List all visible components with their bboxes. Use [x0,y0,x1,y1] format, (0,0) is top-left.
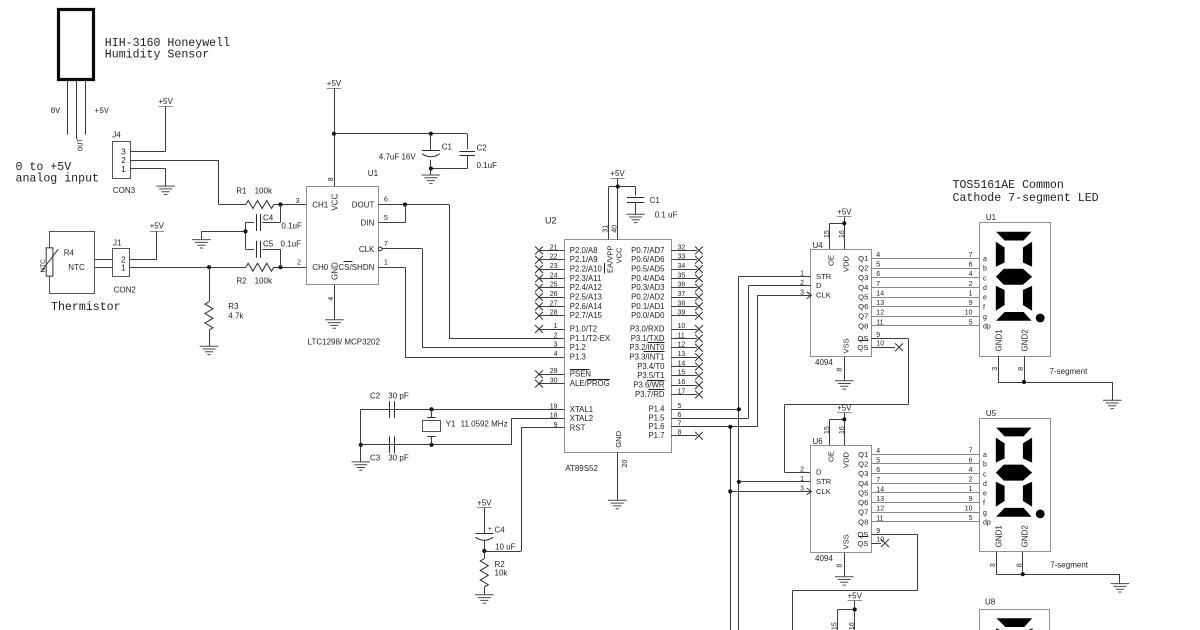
wire R4 to J1 pin2 [95,259,113,261]
svg-text:4: 4 [876,252,880,259]
capacitor C4 0.1uF [246,205,302,232]
svg-text:CLK: CLK [359,245,375,254]
text: TOS5161AE Common Cathode 7-segment LED [953,179,1099,205]
svg-text:Q6: Q6 [858,302,868,311]
ground at U2 GND [608,500,627,508]
svg-text:LTC1298/ MCP3202: LTC1298/ MCP3202 [308,338,381,347]
junction +5V third 4094 [853,607,857,611]
svg-text:P2.5/A13: P2.5/A13 [570,292,602,301]
wires U6 Q1-Q8 to display U5 a-dp [872,455,980,522]
svg-text:C4: C4 [263,214,274,223]
svg-text:4: 4 [328,297,335,301]
ground at C4/C5 [192,240,211,248]
svg-text:GND1: GND1 [994,329,1003,352]
wire +5V rail to C1/C2 [334,133,467,135]
svg-text:ALE/PROG: ALE/PROG [570,379,610,388]
svg-text:U4: U4 [813,241,824,250]
svg-text:g: g [983,510,987,517]
junction R3 top [207,265,211,269]
svg-text:Q4: Q4 [858,479,868,488]
svg-text:g: g [983,314,987,321]
svg-text:4: 4 [876,448,880,455]
svg-text:GND2: GND2 [1021,525,1030,548]
svg-text:5: 5 [969,515,973,522]
svg-text:2: 2 [969,281,973,288]
svg-text:P2.0/A8: P2.0/A8 [570,246,598,255]
junction C1 bottom [429,166,433,170]
svg-text:QS: QS [857,343,868,352]
svg-text:9: 9 [969,300,973,307]
wire U4 VSS to ground [844,357,846,381]
7-segment display U1 TOS5161AE [980,213,1051,357]
+5V supply at U2 EA/VCC [609,169,626,240]
svg-text:3: 3 [296,198,300,205]
svg-text:VCC: VCC [615,247,624,264]
svg-text:a: a [983,256,987,263]
7-segment display U5 TOS5161AE [980,409,1051,552]
svg-text:4: 4 [969,271,973,278]
svg-text:GND: GND [330,262,339,280]
svg-text:P0.1/AD1: P0.1/AD1 [631,302,664,311]
svg-text:U5: U5 [986,409,997,418]
svg-text:Q2: Q2 [858,460,868,469]
svg-text:6: 6 [384,197,388,204]
svg-text:3: 3 [992,367,999,371]
svg-text:Q2: Q2 [858,264,868,273]
svg-text:CON3: CON3 [113,186,136,195]
svg-text:Thermistor: Thermistor [51,301,121,314]
svg-text:8: 8 [836,368,843,372]
svg-text:6: 6 [969,262,973,269]
svg-text:7: 7 [384,241,388,248]
svg-text:P3.5/T1: P3.5/T1 [637,371,664,380]
svg-text:P1.6: P1.6 [648,422,664,431]
svg-text:P0.5/AD5: P0.5/AD5 [631,264,665,273]
svg-text:analog input: analog input [16,173,100,186]
svg-text:8: 8 [1017,563,1024,567]
svg-text:Q1: Q1 [858,450,868,459]
svg-text:C2: C2 [370,391,381,400]
svg-text:16: 16 [839,230,846,238]
resistor R2 100k [236,259,301,285]
junction U1 VCC rail [332,132,336,136]
svg-text:+5V: +5V [150,222,165,231]
wire U1 CLK to U2 P1.2 [382,249,564,348]
svg-text:Q5: Q5 [858,292,868,301]
svg-text:15: 15 [832,622,839,630]
svg-text:1: 1 [121,262,126,272]
wire U1 DIN loop [378,205,405,223]
svg-text:VCC: VCC [330,193,339,210]
svg-text:12: 12 [876,506,884,513]
IC U1 LTC1298/MCP3202 [307,169,389,347]
svg-text:Q1: Q1 [858,254,868,263]
svg-text:d: d [983,481,987,488]
svg-text:P3.4/T0: P3.4/T0 [637,362,665,371]
svg-text:4.7k: 4.7k [228,312,244,321]
svg-text:P2.1/A9: P2.1/A9 [570,255,598,264]
junction DOUT/DIN [403,202,407,206]
svg-text:+5V: +5V [477,499,492,508]
ground at display U5 [1111,584,1130,592]
svg-text:2: 2 [297,259,301,266]
svg-text:Y1: Y1 [446,420,456,429]
svg-text:Q5: Q5 [858,488,868,497]
svg-text:CLK: CLK [816,291,831,300]
svg-text:C5: C5 [263,239,274,248]
wire U2 GND pin20 to ground [617,452,619,500]
svg-text:6: 6 [678,412,682,419]
svg-text:AT89S52: AT89S52 [565,464,598,473]
svg-text:7: 7 [876,477,880,484]
svg-text:0.1uF: 0.1uF [281,222,302,231]
+5V supply at U1 VCC [327,79,342,186]
svg-text:11.0592 MHz: 11.0592 MHz [461,420,508,429]
svg-text:+5V: +5V [610,169,625,178]
svg-text:GND1: GND1 [994,525,1003,548]
junction STR bus U6 [737,480,741,484]
wire P1.4 STR bus [671,276,739,630]
svg-text:37: 37 [678,291,686,298]
svg-text:Humidity Sensor: Humidity Sensor [105,49,209,62]
capacitor C3 30pF [370,437,409,463]
ground at display U1 [1103,400,1122,408]
ground at J4 pin1 [156,186,175,194]
connector J4 CON3 [112,130,135,195]
svg-text:26: 26 [550,291,558,298]
svg-text:34: 34 [678,263,686,270]
ground at C1/C2 [422,169,441,184]
svg-text:C3: C3 [370,454,381,463]
svg-text:Q7: Q7 [858,312,868,321]
svg-text:Q6: Q6 [858,498,868,507]
svg-text:c: c [983,471,987,478]
svg-text:P0.0/AD0: P0.0/AD0 [631,311,665,320]
capacitor C1 0.1uF at U2 [618,187,678,220]
svg-text:EA/VPP: EA/VPP [606,246,615,273]
humidity sensor HIH-3160 [51,10,110,152]
+5V supply at third 4094 [832,591,863,630]
ground at R3 [200,346,219,354]
ground at U4 VSS [835,381,854,389]
junction Y1 top [429,407,433,411]
svg-text:+5V: +5V [327,79,342,88]
wire J4 pin1 to ground [130,169,166,187]
wires U4 Q1-Q8 to display U1 a-dp [872,259,980,326]
wire U2 P1.6 to U4 CLK [757,295,810,297]
svg-text:0.1uF: 0.1uF [477,161,498,170]
+5V supply at U4 [830,207,853,249]
junction U2 +5V [616,184,620,188]
wire J4 pin2 to R1 [130,160,219,205]
svg-text:+5V: +5V [158,97,173,106]
svg-text:R1: R1 [236,187,247,196]
svg-text:P3.2/INT0: P3.2/INT0 [629,343,665,352]
svg-text:Q3: Q3 [858,469,868,478]
svg-text:VSS: VSS [842,534,851,549]
svg-text:+: + [488,526,492,533]
junction +5V U6 [842,417,846,421]
display U5 pin numbers [965,448,973,522]
svg-text:12: 12 [876,310,884,317]
svg-text:J1: J1 [113,238,122,247]
wire J4 pin3 to +5V [130,151,166,153]
crystal Y1 11.0592 MHz [423,409,508,444]
svg-text:+5V: +5V [847,591,862,600]
svg-text:+5V: +5V [837,207,852,216]
svg-text:DIN: DIN [361,219,375,228]
svg-text:+5V: +5V [94,107,109,116]
svg-text:0.1uF: 0.1uF [281,239,302,248]
capacitor C2 0.1uF [431,134,497,171]
junction Y1 bottom [429,443,433,447]
svg-text:C1: C1 [650,196,661,205]
svg-text:XTAL2: XTAL2 [570,414,593,423]
junction C3 left [359,443,363,447]
wire U1 GND pin4 to ground [334,285,336,320]
svg-text:e: e [983,491,987,498]
display U1 pin numbers [965,252,973,326]
ground at U2 C1 [626,214,645,222]
svg-text:7: 7 [969,448,973,455]
svg-text:QS: QS [857,530,868,539]
svg-text:a: a [983,452,987,459]
svg-text:P3.3/INT1: P3.3/INT1 [629,353,664,362]
svg-text:5: 5 [969,319,973,326]
svg-text:P3.6/WR: P3.6/WR [633,381,665,390]
resistor R1 100k [219,187,307,209]
svg-text:16: 16 [678,379,686,386]
svg-text:P0.2/AD2: P0.2/AD2 [631,292,664,301]
svg-text:XTAL1: XTAL1 [570,405,593,414]
text: 0 to +5V analog input [16,161,100,186]
svg-text:5: 5 [384,215,388,222]
svg-text:8: 8 [328,177,335,181]
svg-text:U8: U8 [985,597,996,606]
+5V supply at RST [477,499,492,534]
svg-text:6: 6 [969,457,973,464]
svg-text:PSEN: PSEN [570,370,591,379]
svg-text:P1.5: P1.5 [648,413,665,422]
svg-text:dp: dp [983,519,991,526]
svg-text:D: D [816,468,822,477]
capacitor C5 0.1uF [246,239,302,267]
ground at U1 GND [325,320,344,328]
junction C4/C5 common [243,229,247,233]
svg-text:f: f [983,304,985,311]
svg-text:16: 16 [849,622,856,630]
svg-text:GND2: GND2 [1021,329,1030,352]
svg-text:13: 13 [678,351,686,358]
IC U2 AT89S52 [535,215,703,472]
wire U2 P1.5 to U4 D [748,285,810,287]
svg-text:3: 3 [554,342,558,349]
svg-text:C1: C1 [442,142,453,151]
svg-text:CON2: CON2 [114,286,137,295]
svg-text:P3.0/RXD: P3.0/RXD [630,324,665,333]
svg-text:9: 9 [876,332,880,339]
svg-text:J4: J4 [112,130,121,139]
svg-text:GND: GND [614,430,623,447]
svg-text:P3.1/TXD: P3.1/TXD [631,334,665,343]
svg-text:NTC: NTC [68,263,85,272]
svg-text:VSS: VSS [842,338,851,353]
connector J1 CON2 [113,238,137,294]
svg-text:7: 7 [969,252,973,259]
svg-text:CS/SHDN: CS/SHDN [338,263,374,272]
svg-text:P0.7/AD7: P0.7/AD7 [631,246,664,255]
svg-text:100k: 100k [255,276,273,285]
junction R1 right / C4 [278,202,282,206]
svg-text:P2.6/A14: P2.6/A14 [570,302,603,311]
svg-text:U6: U6 [813,437,824,446]
svg-text:3: 3 [990,563,997,567]
svg-text:5: 5 [876,262,880,269]
svg-text:4094: 4094 [815,358,833,367]
svg-text:R3: R3 [228,302,239,311]
svg-text:P0.3/AD3: P0.3/AD3 [631,283,664,292]
svg-text:23: 23 [550,263,558,270]
svg-text:CH1: CH1 [312,200,329,209]
svg-text:30 pF: 30 pF [388,391,409,400]
wire U2 P1.4 to U4 STR [739,276,811,278]
IC U6 4094 [800,426,884,567]
junction RST/C4/R2 [482,549,486,553]
wire U6 VSS to ground [844,553,846,577]
capacitor C2 30pF [370,391,409,417]
svg-text:8: 8 [836,564,843,568]
wire J1 pin1 to R2 and U1 CH0 [130,267,307,269]
svg-text:P1.2: P1.2 [570,343,586,352]
svg-text:16: 16 [839,426,846,434]
wire U4 QS to U6 D cascade [784,339,908,473]
wire C4/C5 common to ground [201,223,245,250]
svg-text:2: 2 [800,466,804,473]
svg-text:Q4: Q4 [858,283,868,292]
wire R4 to J1 pin1 [95,267,113,269]
capacitor C1 4.7uF 16V [379,134,453,169]
svg-text:c: c [983,275,987,282]
junction display U1 GND2 [1022,380,1026,384]
svg-text:b: b [983,266,987,273]
svg-text:P3.7/RD: P3.7/RD [635,390,665,399]
wire display U1 GND1/GND2 to ground [992,356,1113,400]
svg-text:e: e [983,295,987,302]
svg-text:7-segment: 7-segment [1050,367,1089,376]
svg-text:Q3: Q3 [858,273,868,282]
svg-text:P1.3: P1.3 [570,353,586,362]
svg-text:4: 4 [969,467,973,474]
svg-text:14: 14 [876,290,884,297]
svg-text:+5V: +5V [837,403,852,412]
7-segment display U8 partial [980,597,1050,630]
svg-text:1: 1 [384,259,388,266]
wire U1 DOUT to U2 P1.1/T2-EX [378,205,564,339]
svg-text:dp: dp [983,324,991,331]
svg-text:8: 8 [1018,367,1025,371]
+5V supply at J1 [150,222,165,260]
wire CLK bus to U6 CLK [730,491,810,493]
no-connect X at U6 QS-bar [872,539,889,547]
svg-text:2: 2 [554,332,558,339]
svg-text:f: f [983,500,985,507]
svg-text:10 uF: 10 uF [495,542,516,551]
svg-text:P1.4: P1.4 [648,405,665,414]
svg-text:P2.2/A10: P2.2/A10 [570,264,603,273]
junction +5V U4 [842,221,846,225]
svg-text:P2.3/A11: P2.3/A11 [570,274,602,283]
wire J1 pin2 to +5V [130,259,157,261]
svg-text:Q7: Q7 [858,508,868,517]
svg-text:4.7uF 16V: 4.7uF 16V [379,153,417,162]
svg-text:10k: 10k [495,569,509,578]
svg-text:10: 10 [876,341,884,348]
svg-text:1: 1 [969,486,973,493]
svg-text:QS: QS [857,334,868,343]
svg-text:OUT: OUT [78,138,86,151]
svg-text:TOS5161AE Common: TOS5161AE Common [953,179,1064,192]
svg-text:P2.4/A12: P2.4/A12 [570,283,602,292]
svg-text:CH0: CH0 [312,263,329,272]
svg-text:C2: C2 [477,144,488,153]
ground at U6 VSS [835,577,854,585]
wire U1 CS/SHDN to U2 P1.3 [378,267,564,357]
svg-text:9: 9 [969,496,973,503]
svg-text:D: D [816,281,822,290]
svg-text:VDD: VDD [842,255,851,272]
ground at R2 [475,595,494,603]
svg-text:10: 10 [678,323,686,330]
+5V supply at J4 [158,97,173,152]
svg-text:P1.0/T2: P1.0/T2 [570,324,597,333]
svg-text:STR: STR [816,477,832,486]
wire XTAL1 net [361,409,565,411]
svg-text:9: 9 [876,528,880,535]
resistor R3 4.7k [205,267,244,346]
svg-text:STR: STR [816,272,832,281]
svg-text:7: 7 [876,281,880,288]
svg-text:1: 1 [121,164,126,174]
svg-text:QS: QS [857,539,868,548]
svg-text:P2.7/A15: P2.7/A15 [570,311,603,320]
resistor R2 10k [480,551,508,595]
svg-text:30 pF: 30 pF [388,454,409,463]
svg-text:U1: U1 [986,213,997,222]
thermistor R4 NTC [40,232,95,294]
svg-text:100k: 100k [255,187,273,196]
junction R2 right / C5 [278,265,282,269]
text: HIH-3160 Honeywell Humidity Sensor [105,37,230,62]
svg-text:U1: U1 [368,169,379,178]
svg-text:20: 20 [622,460,629,468]
svg-text:P1.7: P1.7 [648,431,664,440]
svg-text:P0.4/AD4: P0.4/AD4 [631,274,665,283]
svg-text:Q8: Q8 [858,321,868,330]
svg-text:1: 1 [554,323,558,330]
wire U6 QS cascade to third register [793,534,918,630]
svg-text:R2: R2 [236,276,247,285]
wire XTAL left leg [360,409,362,462]
junction display U5 GND2 [1021,572,1025,576]
svg-text:Cathode 7-segment LED: Cathode 7-segment LED [953,192,1099,205]
wire XTAL2 net [361,418,565,445]
svg-text:NTC: NTC [40,259,47,273]
svg-text:0.1 uF: 0.1 uF [655,211,678,220]
svg-text:0V: 0V [51,107,61,116]
svg-text:C4: C4 [495,526,506,535]
junction CLK bus U6 [728,489,732,493]
svg-text:CLK: CLK [816,487,831,496]
